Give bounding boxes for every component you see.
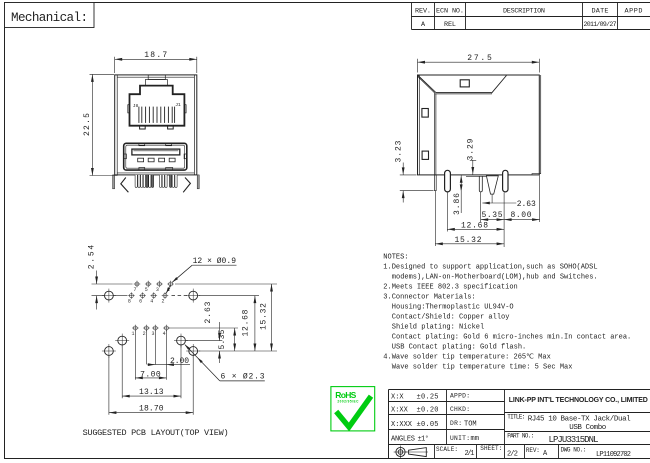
svg-text:DATE: DATE [592, 8, 609, 16]
svg-text:NOTES:: NOTES: [383, 253, 408, 261]
svg-text:USB Contact plating: Gold flas: USB Contact plating: Gold flash. [392, 343, 526, 351]
svg-text:7: 7 [133, 287, 136, 293]
svg-text:13.13: 13.13 [139, 388, 164, 397]
svg-text:3.29: 3.29 [466, 138, 475, 160]
svg-text:TOM: TOM [464, 420, 477, 428]
svg-text:modems),LAN-on-Motherboard(LOM: modems),LAN-on-Motherboard(LOM),hub and … [392, 273, 598, 281]
svg-text:REL: REL [444, 21, 456, 29]
svg-text:2: 2 [161, 299, 164, 305]
svg-text:8.00: 8.00 [511, 211, 532, 220]
svg-text:3.Connector Materials:: 3.Connector Materials: [383, 293, 475, 301]
svg-text:±0.05: ±0.05 [417, 421, 439, 429]
svg-text:ANGLES: ANGLES [391, 436, 415, 444]
svg-text:DR:: DR: [450, 420, 462, 427]
svg-text:Housing:Thermoplastic UL94V-O: Housing:Thermoplastic UL94V-O [392, 303, 514, 311]
svg-text:ECN NO.: ECN NO. [436, 8, 464, 16]
svg-text:1.Designed to support applicat: 1.Designed to support application,such a… [383, 263, 597, 271]
svg-text:USB Combo: USB Combo [569, 424, 606, 432]
svg-text:2.00: 2.00 [170, 357, 189, 366]
svg-text:4: 4 [163, 331, 166, 337]
svg-text:15.32: 15.32 [455, 236, 482, 245]
svg-text:3: 3 [156, 287, 159, 293]
svg-text:±1°: ±1° [418, 435, 430, 444]
svg-text:LP11092702: LP11092702 [596, 451, 631, 459]
svg-text:±0.25: ±0.25 [417, 393, 439, 401]
svg-text:J8: J8 [133, 103, 139, 109]
svg-text:5.35: 5.35 [482, 211, 503, 220]
svg-text:8: 8 [128, 299, 131, 305]
svg-text:4.Wave solder tip temperature:: 4.Wave solder tip temperature: 265℃ Max [383, 353, 551, 361]
svg-text:18.70: 18.70 [139, 404, 164, 413]
svg-text:UNIT:: UNIT: [450, 435, 470, 442]
svg-text:2.63: 2.63 [517, 200, 536, 209]
svg-text:LPJU3315DNL: LPJU3315DNL [549, 435, 599, 445]
svg-text:J1: J1 [175, 102, 181, 108]
svg-text:CHKD:: CHKD: [450, 406, 470, 413]
svg-text:TITLE:: TITLE: [507, 413, 525, 420]
svg-text:2011/09/27: 2011/09/27 [584, 21, 617, 28]
svg-text:27.5: 27.5 [467, 54, 492, 63]
svg-text:12.68: 12.68 [461, 222, 488, 231]
svg-text:Wave solder tip temperature ti: Wave solder tip temperature time: 5 Sec … [392, 363, 573, 371]
svg-text:2/1: 2/1 [465, 450, 475, 458]
svg-text:SCALE:: SCALE: [436, 446, 458, 453]
svg-text:PART NO.:: PART NO.: [507, 433, 534, 440]
svg-text:APPD: APPD [625, 8, 643, 16]
svg-text:Shield plating: Nickel: Shield plating: Nickel [392, 323, 484, 331]
svg-text:18.7: 18.7 [144, 51, 167, 60]
svg-text:SHEET:: SHEET: [480, 445, 502, 452]
svg-text:6: 6 [139, 299, 142, 305]
svg-text:5.35: 5.35 [218, 329, 227, 349]
svg-text:15.32: 15.32 [259, 303, 268, 330]
svg-text:REV:: REV: [526, 447, 540, 454]
svg-text:7.00: 7.00 [140, 370, 161, 379]
svg-text:2: 2 [143, 331, 146, 337]
svg-text:3: 3 [151, 331, 154, 337]
svg-text:4: 4 [150, 299, 153, 305]
svg-text:mm: mm [471, 435, 479, 443]
svg-text:REV.: REV. [415, 8, 431, 16]
svg-text:DESCRIPTION: DESCRIPTION [503, 8, 545, 16]
svg-text:5: 5 [145, 287, 148, 293]
svg-text:12 × Ø0.9: 12 × Ø0.9 [193, 257, 237, 266]
svg-text:LINK-PP INT'L TECHNOLOGY CO.,: LINK-PP INT'L TECHNOLOGY CO., LIMITED [509, 397, 648, 404]
svg-text:6 × Ø2.3: 6 × Ø2.3 [221, 373, 265, 382]
svg-text:Contact plating: Gold 6 micro-: Contact plating: Gold 6 micro-inches min… [392, 333, 631, 341]
svg-text:1: 1 [131, 331, 134, 337]
svg-text:SUGGESTED PCB LAYOUT(TOP VIEW): SUGGESTED PCB LAYOUT(TOP VIEW) [83, 428, 229, 438]
svg-text:X:X: X:X [391, 393, 404, 401]
svg-text:DWG NO.:: DWG NO.: [561, 447, 587, 454]
svg-text:Mechanical:: Mechanical: [11, 11, 88, 25]
svg-text:3.86: 3.86 [453, 193, 462, 215]
svg-text:RJ45 10 Base-TX Jack/Dual: RJ45 10 Base-TX Jack/Dual [528, 416, 631, 424]
svg-text:X:XX: X:XX [391, 407, 409, 415]
svg-text:3.23: 3.23 [395, 140, 404, 162]
svg-text:22.5: 22.5 [83, 113, 92, 136]
svg-text:±0.20: ±0.20 [417, 407, 439, 415]
svg-text:Contact/Shield: Copper alloy: Contact/Shield: Copper alloy [392, 313, 510, 321]
svg-text:X:XXX: X:XXX [391, 421, 413, 429]
svg-text:2.63: 2.63 [204, 301, 213, 323]
svg-text:2.Meets IEEE 802.3 specificati: 2.Meets IEEE 802.3 specification [383, 283, 517, 291]
svg-text:12.68: 12.68 [241, 309, 250, 336]
svg-text:2.54: 2.54 [88, 245, 97, 270]
svg-text:APPD:: APPD: [450, 393, 470, 400]
svg-text:2/2: 2/2 [507, 451, 518, 459]
svg-text:2002/95/EC: 2002/95/EC [337, 400, 359, 404]
